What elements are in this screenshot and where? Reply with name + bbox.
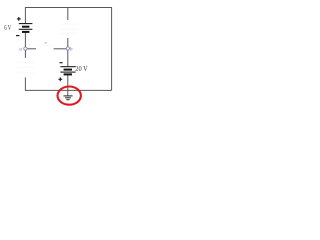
wire: horizontal stub right of node a: [27, 48, 36, 50]
svg-text:6 V: 6 V: [4, 23, 11, 32]
wire: bottom rail: [25, 89, 111, 91]
node a terminal circle: [24, 47, 27, 50]
wire: horizontal stub left of node b: [54, 48, 67, 50]
wire: stub down from top rail at x=67.8: [67, 8, 69, 21]
red highlight ellipse around ground: [57, 87, 80, 105]
svg-text:a: a: [19, 47, 22, 53]
battery V2 minus sign: [60, 62, 63, 64]
ghost of erased resistor (left branch, below node a): [17, 63, 34, 73]
battery V2 plus sign: [59, 77, 63, 81]
svg-text:20 V: 20 V: [75, 64, 88, 73]
wire: segment above node b: [67, 38, 69, 47]
wire: left branch, battery V1 to node a: [24, 33, 26, 48]
battery V1 plus sign: [17, 17, 21, 21]
ghost of erased resistor (between node a and node b): [36, 42, 54, 45]
battery V2 (20 V) plates: [60, 67, 75, 75]
ghost of erased resistor (right branch, between top rail stub and node b): [60, 24, 78, 33]
battery V1 (6 V) plates: [19, 24, 33, 32]
node b terminal circle: [66, 47, 69, 50]
wire: battery V2 down to bottom rail: [67, 75, 69, 91]
battery V1 minus sign: [16, 35, 19, 37]
wire: left branch, stub below node a: [24, 50, 26, 58]
wire: left branch, lower segment to bottom rail: [24, 78, 26, 91]
ground stem: [67, 90, 69, 95]
background: [0, 0, 120, 107]
wire: top rail with left and right corners: [25, 8, 111, 91]
wire: node b down to battery V2: [67, 50, 69, 66]
ground symbol bars: [63, 96, 72, 100]
svg-text:b: b: [70, 46, 73, 52]
